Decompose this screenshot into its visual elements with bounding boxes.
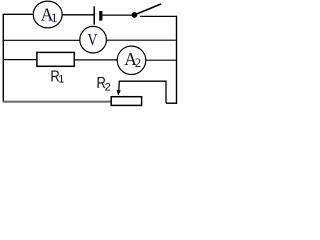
- svg-text:V: V: [88, 30, 98, 49]
- svg-text:2: 2: [135, 56, 141, 70]
- ammeter A1: [33, 1, 62, 28]
- voltmeter V: [80, 26, 107, 53]
- wire top rail to A1: [3, 13, 34, 15]
- wire elbow vertical: [165, 81, 167, 104]
- rheostat slider arrow: [117, 81, 121, 95]
- wire A1 to battery: [62, 14, 94, 16]
- switch pivot dot: [132, 12, 138, 18]
- rheostat R2 box: [111, 97, 141, 106]
- wire R1 to A2: [74, 59, 117, 61]
- wire bottom jog: [166, 102, 177, 104]
- svg-text:1: 1: [58, 74, 64, 86]
- resistor R1 box: [37, 52, 74, 66]
- wire V to right vertical: [106, 39, 177, 41]
- wire right vertical: [176, 16, 178, 104]
- switch blade: [135, 4, 161, 15]
- wire rail3 left to R1: [3, 59, 37, 61]
- switch right terminal wire: [140, 15, 177, 17]
- wire bottom rail: [3, 101, 112, 103]
- ammeter A2: [117, 46, 146, 74]
- label R1: [50, 69, 64, 86]
- battery short thick plate: [99, 11, 102, 21]
- svg-text:2: 2: [105, 82, 111, 94]
- wire rail2 left to V: [3, 39, 80, 41]
- wire slider to elbow: [119, 80, 167, 82]
- wire left vertical: [2, 14, 4, 102]
- label R2: [97, 75, 111, 94]
- wire A2 to right vertical: [146, 59, 177, 61]
- battery long plate: [93, 6, 95, 24]
- wire battery to switch: [102, 14, 132, 16]
- svg-text:1: 1: [51, 10, 58, 25]
